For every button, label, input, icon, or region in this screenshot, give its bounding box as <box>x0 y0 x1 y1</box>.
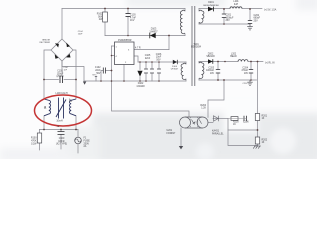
svg-text:C206: C206 <box>243 121 249 123</box>
svg-text:R102: R102 <box>97 14 103 16</box>
svg-text:10uF: 10uF <box>156 57 162 59</box>
wire: comp net <box>213 118 228 120</box>
svg-text:1K: 1K <box>262 142 265 144</box>
wire: right AC vertical <box>73 50 76 99</box>
svg-text:1000uF: 1000uF <box>206 70 214 72</box>
transformer sec1 winding <box>199 10 204 23</box>
output1 diode D201 <box>208 7 214 12</box>
svg-text:b: b <box>69 98 72 103</box>
wire: sec2 top lead <box>198 62 200 64</box>
wire: divider vertical <box>257 62 259 147</box>
opto emitter arrow / chassis <box>179 146 183 149</box>
wire: fuse leads <box>77 130 79 154</box>
fuse F100 <box>75 137 82 144</box>
wire: output1 rail <box>199 8 262 10</box>
wire: bridge top riser <box>61 9 63 40</box>
transformer primary winding <box>180 10 185 33</box>
output2 cap1 plates <box>216 70 220 74</box>
svg-text:10V: 10V <box>210 73 215 75</box>
svg-text:150uF: 150uF <box>57 73 64 75</box>
svg-text:10mH: 10mH <box>56 120 63 122</box>
svg-text:D201: D201 <box>208 2 214 4</box>
svg-text:C100: C100 <box>59 138 65 140</box>
svg-text:D103: D103 <box>151 29 157 31</box>
svg-text:1/2W: 1/2W <box>31 143 37 145</box>
vfb capacitor plates <box>103 68 105 74</box>
svg-text:680uF: 680uF <box>254 18 261 20</box>
wire: output1 cap1 <box>223 9 225 24</box>
chassis arrow on B- <box>83 82 86 85</box>
svg-text:KA431: KA431 <box>212 130 220 133</box>
svg-text:1N4148: 1N4148 <box>136 86 145 88</box>
svg-text:10nF: 10nF <box>78 33 83 35</box>
ground divider <box>253 146 261 149</box>
wire: drain to IC <box>134 49 169 51</box>
wire: vfb cap <box>101 71 112 82</box>
svg-text:UF4007: UF4007 <box>171 69 179 71</box>
svg-text:2A: 2A <box>84 145 87 148</box>
svg-text:4.7nF: 4.7nF <box>130 17 137 19</box>
wire: IC left pin stubs <box>112 46 115 56</box>
svg-text:(+) 5V, 1.5A: (+) 5V, 1.5A <box>264 8 277 11</box>
wire: bias bottom lead <box>185 79 187 81</box>
svg-text:56K: 56K <box>98 16 103 18</box>
divider resistor R down <box>255 137 259 144</box>
wire: output2 cap2 <box>250 62 252 81</box>
svg-text:(250V): (250V) <box>57 76 64 78</box>
wire: output1 return rail <box>199 23 250 25</box>
shunt reg 431 <box>214 116 219 121</box>
output2 cap2 plates <box>249 70 253 74</box>
svg-text:FUSE: FUSE <box>84 141 91 143</box>
svg-text:RECTIFIER: RECTIFIER <box>39 42 50 44</box>
svg-text:SB360/MBR360: SB360/MBR360 <box>203 5 219 7</box>
wire: sec1 bottom lead <box>198 23 200 25</box>
svg-text:NTC: NTC <box>93 75 98 77</box>
svg-text:D102: D102 <box>138 83 144 85</box>
svg-text:C101: C101 <box>57 71 63 73</box>
svg-text:R201: R201 <box>262 115 268 117</box>
svg-text:C106: C106 <box>156 54 162 56</box>
svg-text:C201: C201 <box>226 15 232 17</box>
optocoupler U2 <box>180 117 209 128</box>
wire: left AC vertical <box>44 50 51 99</box>
output1 cap2 plates <box>248 21 252 24</box>
svg-text:470K: 470K <box>31 141 37 143</box>
svg-text:EER2834: EER2834 <box>191 47 202 49</box>
svg-text:FSDM0565R: FSDM0565R <box>118 40 132 42</box>
svg-text:C204: C204 <box>242 67 248 69</box>
svg-text:C102: C102 <box>95 67 101 69</box>
svg-text:D202: D202 <box>208 53 214 55</box>
wire: output2 cap1 <box>217 62 219 81</box>
wire: vcc caps drops <box>145 62 147 81</box>
bridge rectifier BR1 <box>51 39 73 61</box>
wire: led feed <box>208 80 224 117</box>
svg-text:(+) RL IN: (+) RL IN <box>265 62 275 64</box>
wire: clamp C lead <box>127 9 129 36</box>
bias diode D104 UF4007 <box>173 60 178 64</box>
svg-text:22nF: 22nF <box>95 70 101 72</box>
clamp capacitor C3 plates <box>126 14 131 17</box>
svg-text:50V: 50V <box>156 59 161 61</box>
wire: vcc wire <box>138 61 186 63</box>
wire: sec2 bottom lead <box>198 79 200 81</box>
svg-text:100nF: 100nF <box>58 141 65 143</box>
svg-text:SB2100: SB2100 <box>206 56 215 58</box>
output2 bead L202 <box>238 60 248 62</box>
svg-text:C103: C103 <box>130 15 136 17</box>
wire: clamp bottom <box>105 35 185 37</box>
svg-text:L100 10mH: L100 10mH <box>55 93 67 95</box>
svg-text:1.2K: 1.2K <box>201 108 206 110</box>
ground output2 <box>247 80 252 86</box>
svg-text:1K: 1K <box>233 124 236 126</box>
svg-text:U201: U201 <box>167 130 173 132</box>
svg-text:25V: 25V <box>226 20 231 22</box>
svg-text:50V: 50V <box>96 73 101 75</box>
svg-text:25V: 25V <box>254 21 259 23</box>
clamp diode D1 <box>150 33 156 39</box>
line filter choke L100 (blue) <box>44 98 76 119</box>
wire: primary top lead <box>184 9 186 12</box>
wire: choke lower leads <box>43 116 45 130</box>
svg-text:R204: R204 <box>200 105 206 107</box>
wire: opto emitter drop <box>180 128 182 146</box>
wire: small element at 96 <box>95 77 97 82</box>
svg-text:250V: 250V <box>84 143 90 145</box>
svg-text:T101: T101 <box>193 44 199 46</box>
svg-text:FOD817: FOD817 <box>167 133 177 135</box>
clamp resistor R1 <box>103 12 108 22</box>
wire: fb sense <box>228 129 258 131</box>
svg-text:PARALLEL: PARALLEL <box>212 132 224 135</box>
wire: sec1 top lead <box>198 9 200 12</box>
wire: output2 rail <box>199 61 263 63</box>
svg-text:C202: C202 <box>254 15 260 17</box>
svg-text:10V: 10V <box>244 73 249 75</box>
X cap C100 plates <box>58 132 65 135</box>
svg-text:22nF: 22nF <box>145 58 151 60</box>
discharge resistor R100 <box>37 133 41 143</box>
bulk capacitor C1 plates <box>60 76 63 83</box>
wire: clamp R lead <box>104 9 106 36</box>
output2 diode D202 <box>208 59 213 64</box>
svg-text:C203: C203 <box>208 67 214 69</box>
svg-text:(X2 TYPE): (X2 TYPE) <box>56 144 67 146</box>
comp C plates <box>228 116 246 121</box>
svg-text:1K: 1K <box>262 118 265 120</box>
wire: bias top lead <box>185 62 187 64</box>
svg-text:4.7 R: 4.7 R <box>135 48 141 50</box>
wire: output2 gnd rail <box>199 79 257 81</box>
svg-text:R202: R202 <box>262 139 268 141</box>
svg-text:470uF: 470uF <box>241 70 248 72</box>
background page <box>0 0 317 159</box>
transformer bias winding <box>181 63 186 79</box>
wire: bridge bottom stub <box>61 61 63 76</box>
wire: bulk cap cross line <box>44 79 59 81</box>
comp R box <box>231 117 238 121</box>
wire: drain drop <box>168 36 170 50</box>
svg-text:3uH: 3uH <box>234 4 239 6</box>
svg-text:BEAD: BEAD <box>230 55 237 58</box>
vcc diode D2 1N4148 <box>137 71 142 77</box>
wire: AC input bottom bus <box>40 129 79 131</box>
wire: opto led return <box>208 122 213 124</box>
svg-text:R203: R203 <box>233 121 239 123</box>
transformer sec2 winding <box>199 62 204 78</box>
wire: 4148 drop <box>139 62 141 81</box>
wire: primary bottom lead <box>184 34 186 36</box>
svg-text:L201: L201 <box>233 1 239 3</box>
vcc cap plates <box>144 69 161 73</box>
svg-text:C105: C105 <box>145 55 151 57</box>
IC U1 FSDM0565R <box>115 42 135 65</box>
wire: R discharge lead <box>39 130 41 151</box>
wire: IC gnd pin <box>123 65 125 82</box>
wire: 431 loop <box>228 119 258 146</box>
svg-text:R100: R100 <box>31 138 37 140</box>
transformer T1 core <box>192 6 195 86</box>
svg-text:1KV: 1KV <box>130 20 135 22</box>
output1 inductor L201 <box>230 7 242 9</box>
svg-text:L202: L202 <box>231 53 237 55</box>
output1 cap1 plates <box>222 14 226 18</box>
wire: B+ top rail <box>62 8 185 10</box>
svg-text:a: a <box>44 104 47 109</box>
svg-text:1N4937: 1N4937 <box>149 31 158 33</box>
small element x96 <box>95 76 97 78</box>
ground output1 <box>247 24 253 30</box>
divider resistor R up <box>255 114 259 121</box>
red highlight ellipse <box>35 95 92 126</box>
wire: B- riser from bridge <box>62 61 84 81</box>
wire: primary return rail <box>84 80 186 82</box>
wire: X-cap lead <box>60 130 62 150</box>
wire: vfb vertical <box>112 46 190 117</box>
svg-text:1000uF: 1000uF <box>226 17 234 19</box>
wire: output1 cap2 <box>249 9 251 24</box>
wire: vcc pin stub <box>134 56 138 62</box>
